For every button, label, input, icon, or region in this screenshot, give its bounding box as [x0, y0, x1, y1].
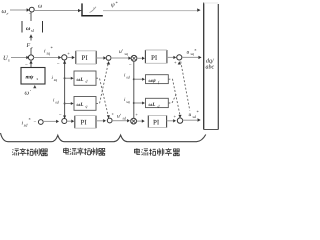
svg-text:−: − — [59, 114, 62, 119]
svg-text:d: d — [86, 80, 88, 84]
svg-text:sq: sq — [126, 100, 129, 104]
svg-text:q: q — [86, 105, 88, 109]
svg-text:r: r — [7, 11, 9, 16]
svg-text:sd: sd — [126, 75, 129, 79]
svg-text:u: u — [189, 112, 192, 118]
svg-text:−: − — [57, 62, 60, 67]
svg-text:d: d — [158, 104, 160, 108]
svg-text:e: e — [31, 45, 33, 50]
svg-text:sq: sq — [125, 52, 128, 56]
svg-text:+: + — [67, 51, 70, 56]
svg-text:ψ: ψ — [111, 3, 115, 9]
svg-text:u: u — [187, 49, 190, 55]
svg-text:sd: sd — [123, 116, 126, 120]
svg-text:PI: PI — [153, 118, 160, 126]
svg-text:ωL: ωL — [77, 102, 84, 108]
svg-text:ω: ω — [38, 3, 42, 9]
svg-text:PI: PI — [82, 54, 89, 62]
svg-text:sd: sd — [193, 115, 196, 119]
svg-text:PI: PI — [81, 119, 88, 127]
svg-text:−: − — [34, 121, 37, 126]
svg-text:mψ: mψ — [26, 75, 34, 81]
svg-text:sq: sq — [47, 51, 51, 56]
svg-text:ωψ: ωψ — [149, 78, 157, 84]
svg-text:F: F — [26, 43, 31, 49]
svg-text:sd: sd — [55, 100, 58, 104]
svg-text:PI: PI — [151, 54, 158, 62]
svg-text:sq: sq — [54, 78, 57, 82]
svg-text:ωL: ωL — [77, 77, 84, 83]
svg-text:abc: abc — [206, 63, 215, 70]
svg-text:ωL: ωL — [149, 102, 156, 108]
svg-text:−: − — [129, 64, 132, 69]
